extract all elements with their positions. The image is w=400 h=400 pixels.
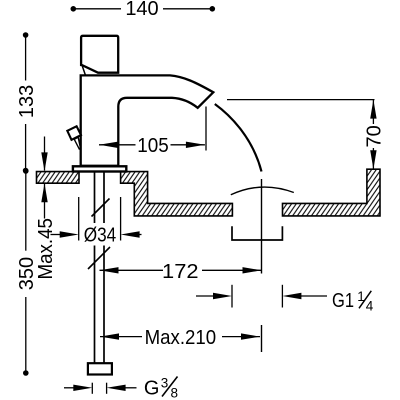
base plate bbox=[73, 166, 126, 171]
dimension Max.210 bbox=[100, 333, 260, 339]
side lever stem bbox=[74, 137, 80, 149]
water stream bbox=[215, 104, 262, 172]
faucet body and spout bbox=[81, 75, 214, 165]
svg-text:70: 70 bbox=[364, 125, 386, 147]
pipe break slash upper bbox=[92, 199, 110, 217]
dimension Max.45 bbox=[41, 137, 47, 219]
drain bracket bbox=[232, 226, 282, 240]
svg-text:4: 4 bbox=[366, 299, 374, 314]
dimension 133 left bbox=[23, 32, 29, 173]
svg-text:G: G bbox=[144, 378, 160, 400]
dimension 350 left bbox=[23, 168, 29, 376]
svg-text:105: 105 bbox=[137, 135, 169, 157]
countertop left band bbox=[37, 172, 80, 184]
drain centerline bbox=[261, 179, 263, 274]
svg-text:3: 3 bbox=[161, 376, 169, 391]
svg-text:8: 8 bbox=[171, 386, 179, 400]
dimension 140 top bbox=[71, 6, 216, 12]
svg-text:133: 133 bbox=[16, 85, 38, 118]
svg-text:Ø34: Ø34 bbox=[84, 224, 117, 246]
dimension G1 1/4 bbox=[196, 285, 327, 308]
svg-text:140: 140 bbox=[125, 0, 158, 20]
dimension 70 bbox=[370, 100, 376, 170]
dimension O34 bbox=[51, 197, 142, 241]
side lever knob bbox=[67, 126, 81, 140]
G 3/8 connector box bbox=[88, 363, 112, 374]
svg-text:Max.210: Max.210 bbox=[145, 327, 217, 349]
dimension 105 bbox=[99, 107, 206, 151]
faucet handle bbox=[81, 36, 118, 73]
supply pipe bbox=[94, 171, 96, 363]
svg-text:172: 172 bbox=[162, 261, 199, 283]
countertop right band with sink step bbox=[121, 172, 233, 216]
svg-text:Max.45: Max.45 bbox=[35, 218, 57, 279]
drain dome arc bbox=[231, 187, 294, 195]
dimension G 3/8 bbox=[64, 383, 137, 394]
spout reference line bbox=[227, 99, 375, 101]
svg-text:G1: G1 bbox=[332, 290, 354, 312]
dimension 172 bbox=[100, 267, 262, 273]
pipe break slash lower bbox=[88, 247, 110, 269]
sink right wall bbox=[283, 169, 381, 216]
handle lever wedge bbox=[82, 65, 86, 75]
drain centerline lower segment bbox=[261, 325, 263, 352]
